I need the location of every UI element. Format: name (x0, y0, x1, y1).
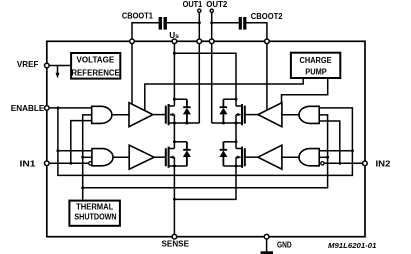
svg-text:VOLTAGE: VOLTAGE (77, 56, 115, 65)
voltage reference block (71, 53, 120, 79)
wire Vs rail to right half-bridge drain (174, 53, 236, 106)
driver triangle upper-right (258, 103, 282, 127)
wire thermal branch to lower-left AND (83, 156, 92, 158)
wire charge pump rail (145, 78, 303, 111)
node OUT1 source junction (173, 122, 176, 125)
node lower-right drain branch (235, 140, 238, 143)
node thermal rail branch (81, 186, 84, 189)
wire charge pump to right driver (282, 78, 328, 103)
input bubble lower-right AND (321, 162, 324, 165)
IC boundary box (47, 41, 365, 236)
wire CBOOT1 to OUT1 (132, 23, 199, 42)
node ENABLE branch (56, 106, 59, 109)
COMPONENT BOXES (69, 53, 340, 226)
wire IN2 to lower-right AND bubble (324, 162, 365, 164)
wire sense rail to lower-right source (174, 166, 236, 199)
node lower-left source junction (173, 165, 176, 168)
wire sense line to SENSE pin (173, 166, 175, 237)
node sense rail junction (173, 198, 176, 201)
pin SENSE (172, 234, 177, 239)
node thermal lower-right branch (326, 156, 329, 159)
svg-text:OUT2: OUT2 (206, 0, 228, 9)
capacitor CBOOT1 (151, 17, 174, 30)
DIODES (183, 99, 228, 166)
wire thermal branch to lower-right AND (319, 156, 327, 158)
driver triangle lower-right (258, 145, 282, 169)
ground symbol at GND (261, 239, 273, 254)
wire IN1 up-branch to upper-left AND (71, 121, 92, 164)
node upper-right diode anode (222, 122, 225, 125)
svg-text:CBOOT2: CBOOT2 (251, 12, 283, 21)
wire IN1 to lower-left AND bubble (47, 162, 89, 164)
node ENABLE lower branch (56, 149, 59, 152)
wire thermal shutdown output vertical (83, 115, 92, 201)
pin CBOOT2 (265, 39, 270, 44)
node OUT2 source junction (235, 122, 238, 125)
diode upper-left body (183, 99, 190, 123)
wire upper-left AND to driver (112, 114, 129, 116)
wire thermal rail to right side (83, 115, 328, 188)
wire upper-right AND to driver (282, 114, 299, 116)
pin OUT1 (197, 39, 202, 44)
svg-text:CBOOT1: CBOOT1 (122, 12, 154, 21)
wire VREF into voltage reference (47, 65, 71, 67)
svg-text:VREF: VREF (17, 60, 39, 69)
diode upper-right body (220, 99, 227, 123)
wire OUT2 to CBOOT2 pin (212, 23, 267, 42)
transistor upper-right DMOS (242, 104, 245, 125)
AND gate upper-left (92, 106, 112, 123)
transistor lower-right DMOS (242, 147, 245, 168)
wire lower-left driver to gate (154, 156, 166, 158)
svg-text:REFERENCE: REFERENCE (71, 68, 120, 77)
svg-text:SENSE: SENSE (162, 239, 190, 248)
wire CBOOT2 into right driver (266, 41, 268, 110)
node upper-right diode branch (235, 98, 238, 101)
wire IN2 up-branch to upper-right AND (319, 121, 340, 163)
node CBOOT1-OUT1 (198, 21, 201, 24)
wire upper-left diode top branch (174, 98, 187, 100)
wire lower-right AND to driver (282, 156, 299, 158)
wire CBOOT1 into driver (131, 41, 133, 104)
svg-text:SHUTDOWN: SHUTDOWN (74, 212, 116, 221)
pin Vs (172, 39, 177, 44)
terminal OUT1 (198, 9, 201, 12)
wire lower-left source to diode anode (174, 165, 187, 167)
wire OUT1 vertical (198, 11, 200, 123)
terminal OUT2 (210, 9, 213, 12)
arrow from VREF node (56, 66, 60, 79)
driver triangle lower-left (129, 145, 154, 169)
wire lower-right source to diode anode (223, 165, 236, 167)
svg-text:OUT1: OUT1 (183, 0, 203, 9)
node IN1 branch (69, 162, 72, 165)
pin VREF (45, 63, 50, 68)
AND gate upper-right (299, 106, 319, 123)
capacitor CBOOT2 (231, 17, 252, 30)
wire upper-right source to OUT2 (212, 122, 236, 124)
pin CBOOT1 (130, 39, 135, 44)
wire lower-left AND to driver (113, 156, 129, 158)
GATES AND DRIVERS (89, 103, 324, 170)
node upper-left diode anode (185, 122, 188, 125)
node IN2 branch (338, 162, 341, 165)
diode lower-right body (220, 142, 227, 166)
wire upper-right diode top branch (223, 98, 236, 100)
wire OUT2 node to lower-right drain (235, 123, 237, 149)
wire upper-left driver to gate (153, 114, 166, 116)
node upper-left diode branch (173, 98, 176, 101)
node ENABLE right branch (351, 149, 354, 152)
pin IN2 (363, 161, 368, 166)
wire ENABLE down-branch to lower-left AND (58, 108, 92, 151)
node lower-right source junction (235, 165, 238, 168)
wire lower-left diode top branch (174, 141, 187, 143)
pin GND (264, 234, 269, 239)
wire lower-right diode top branch (223, 141, 236, 143)
AND gate lower-right (299, 149, 319, 166)
transistor upper-left DMOS (166, 104, 169, 125)
PIN CIRCLES (45, 9, 368, 239)
wire OUT1 node to lower-left drain (173, 123, 175, 149)
svg-text:PUMP: PUMP (305, 68, 327, 77)
charge pump block (291, 53, 340, 78)
wire OUT2 vertical (211, 11, 213, 123)
wire upper-right driver to gate (245, 114, 258, 116)
wire lower-right driver to gate (245, 156, 258, 158)
MOSFETS (166, 104, 245, 168)
svg-text:IN1: IN1 (20, 159, 37, 168)
pin IN1 (45, 161, 50, 166)
diode lower-left body (183, 142, 190, 166)
wire ENABLE branch to lower-right AND (319, 150, 352, 152)
svg-text:CHARGE: CHARGE (300, 56, 333, 65)
AND gate lower-left (92, 149, 113, 166)
node Vs rail branch (173, 52, 176, 55)
node thermal lower-left branch (81, 156, 84, 159)
svg-text:IN2: IN2 (376, 160, 392, 169)
svg-text:s: s (175, 33, 179, 40)
pin ENABLE (45, 106, 50, 111)
wire ENABLE rail to right side (58, 108, 353, 175)
input bubble lower-left AND (89, 162, 92, 165)
node lower-left drain branch (173, 140, 176, 143)
driver triangle upper-left (129, 103, 153, 127)
thermal shutdown block (69, 201, 120, 226)
wire upper-left source to OUT1 (174, 122, 199, 124)
transistor lower-left DMOS (166, 147, 169, 168)
wire Vs supply vertical (173, 41, 175, 106)
node CBOOT2-OUT2 (210, 21, 213, 24)
pin OUT2 (209, 39, 214, 44)
svg-text:GND: GND (277, 240, 292, 249)
svg-text:THERMAL: THERMAL (76, 202, 113, 211)
wire ENABLE to upper-left AND (47, 107, 92, 109)
svg-text:M91L6201-01: M91L6201-01 (328, 241, 376, 250)
svg-text:ENABLE: ENABLE (11, 104, 45, 113)
